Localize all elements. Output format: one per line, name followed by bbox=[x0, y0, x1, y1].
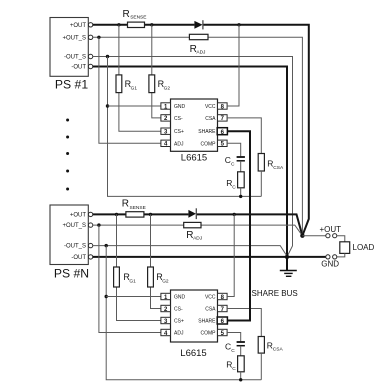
svg-text:CS+: CS+ bbox=[174, 319, 184, 325]
resistor RC PSN bbox=[226, 356, 244, 372]
junction dot ADJ/+OUT_S PSN bbox=[97, 223, 100, 226]
pin +OUT_S PS1 bbox=[88, 35, 92, 39]
svg-text:ADJ: ADJ bbox=[174, 141, 184, 147]
svg-text:PS #1: PS #1 bbox=[55, 77, 88, 91]
op-amp U2 L6615 body bbox=[171, 290, 218, 359]
wire CSA U1 (pin7 to RCSA) bbox=[227, 118, 261, 154]
svg-text:GND: GND bbox=[174, 295, 186, 301]
wire RCSA bottom to rail bbox=[260, 171, 262, 196]
pin +OUT PSN bbox=[88, 212, 92, 216]
ellipsis dots between supplies bbox=[66, 119, 69, 191]
pin -OUT PS1 bbox=[88, 64, 92, 68]
svg-text:SENSE: SENSE bbox=[130, 15, 146, 21]
ground symbol bbox=[280, 257, 297, 276]
svg-text:G2: G2 bbox=[162, 278, 169, 284]
wire Cc to Rc PSN bbox=[240, 346, 242, 356]
wire Cc to Rc bbox=[240, 161, 242, 172]
junction dot Rc/rail PSN bbox=[239, 378, 242, 381]
resistor RCSA PS1 bbox=[258, 154, 284, 172]
pin 4 U1 bbox=[161, 140, 171, 148]
junction dot node VCC/+OUT bbox=[237, 23, 240, 26]
svg-text:VCC: VCC bbox=[205, 104, 216, 110]
pin 1 U2 bbox=[161, 293, 171, 301]
power supply PS #N box bbox=[50, 205, 89, 280]
svg-text:ADJ: ADJ bbox=[174, 331, 184, 337]
wire COMP U1 (pin5 to Cc) bbox=[227, 143, 241, 156]
wire share bus (bold) bbox=[227, 131, 250, 320]
svg-text:COMP: COMP bbox=[201, 141, 217, 147]
svg-text:C: C bbox=[232, 366, 236, 372]
svg-text:GND: GND bbox=[174, 104, 186, 110]
wire -OUT PS1 (bold) bbox=[93, 67, 287, 257]
svg-text:COMP: COMP bbox=[201, 331, 217, 337]
pin 4 U2 bbox=[161, 329, 171, 337]
pin 2 U1 bbox=[161, 115, 171, 123]
junction dot node RG1/+OUT bbox=[117, 23, 120, 26]
wire pin1 GND PSN bbox=[106, 296, 161, 298]
svg-text:SHARE: SHARE bbox=[198, 319, 216, 325]
wire GND PS1 (from -OUT_S down to pin 1 and bottom rail) bbox=[108, 57, 262, 197]
wire RCSA bottom to rail PSN bbox=[260, 353, 262, 380]
pin -OUT PSN bbox=[88, 255, 92, 259]
diode D1 bbox=[194, 20, 203, 29]
junction dot GND vertical/-OUT_S PSN bbox=[105, 244, 108, 247]
resistor RG1 PS1 bbox=[116, 25, 161, 131]
wire ADJ PSN bbox=[99, 225, 161, 332]
capacitor CC PS1 bbox=[225, 155, 245, 167]
svg-text:G2: G2 bbox=[164, 85, 171, 91]
resistor RC PS1 bbox=[226, 172, 244, 191]
pin 7 U2 bbox=[218, 305, 228, 313]
wire -OUT_S PSN bbox=[93, 246, 287, 257]
svg-text:+OUT: +OUT bbox=[70, 213, 87, 219]
wire +OUT_S PSN bbox=[93, 225, 303, 236]
svg-text:CS-: CS- bbox=[174, 116, 183, 122]
pin -OUT_S PS1 bbox=[88, 54, 92, 58]
pin +OUT PS1 bbox=[88, 23, 92, 27]
resistor RADJ PSN bbox=[184, 222, 203, 241]
svg-text:G1: G1 bbox=[131, 85, 138, 91]
junction dot GND vertical/-OUT_S bbox=[106, 55, 109, 58]
svg-text:ADJ: ADJ bbox=[193, 236, 203, 242]
wire COMP U2 (pin5 to Cc) bbox=[227, 333, 241, 342]
pin 3 U1 bbox=[161, 128, 171, 136]
wire load bottom to GND terminal bbox=[337, 253, 345, 257]
svg-text:GND: GND bbox=[321, 259, 339, 268]
svg-text:CSA: CSA bbox=[273, 165, 284, 171]
svg-text:-OUT: -OUT bbox=[71, 255, 86, 261]
power supply PS #1 box bbox=[50, 18, 88, 92]
wire GND PSN (down to pin1 and rail) bbox=[106, 246, 261, 380]
pin 8 U2 bbox=[218, 293, 228, 301]
svg-text:+OUT_S: +OUT_S bbox=[62, 35, 86, 41]
svg-text:R: R bbox=[122, 199, 129, 210]
svg-text:ADJ: ADJ bbox=[196, 50, 206, 56]
svg-text:CS-: CS- bbox=[174, 307, 183, 313]
wire -OUT_S PS1 bbox=[93, 57, 293, 257]
pin 6 U1 (share, bold) bbox=[217, 128, 227, 136]
resistor RG2 PS1 bbox=[149, 25, 170, 118]
wire +OUT node to terminal bbox=[302, 235, 325, 237]
wire +OUT terminal to load bbox=[337, 236, 345, 242]
resistor RG2 PSN bbox=[148, 214, 169, 308]
svg-text:SHARE BUS: SHARE BUS bbox=[252, 289, 298, 298]
wire -OUT PSN (bold, runs to GND terminal) bbox=[93, 256, 326, 258]
diode D2 bbox=[188, 208, 196, 219]
terminal circles +OUT bbox=[326, 234, 330, 238]
svg-text:PS #N: PS #N bbox=[54, 266, 89, 280]
pin 5 U2 bbox=[218, 329, 228, 337]
svg-text:-OUT_S: -OUT_S bbox=[64, 244, 86, 250]
svg-text:CS+: CS+ bbox=[174, 129, 184, 135]
wire CSA U2 (pin7 to RCSA) bbox=[227, 309, 261, 337]
resistor RADJ PS1 bbox=[189, 34, 208, 55]
wire Rc bottom to rail bbox=[240, 188, 242, 197]
pin 7 U1 bbox=[218, 115, 228, 123]
pin 8 U1 bbox=[218, 103, 228, 111]
svg-text:-OUT: -OUT bbox=[71, 65, 86, 71]
wire pin1 GND PS1 bbox=[108, 105, 161, 107]
node GND junction bbox=[285, 255, 289, 259]
wire +OUT PSN (bold) bbox=[93, 214, 303, 235]
pin 6 U2 (share, bold) bbox=[217, 317, 227, 325]
svg-text:CSA: CSA bbox=[205, 116, 216, 122]
svg-text:SHARE: SHARE bbox=[198, 129, 216, 135]
pin 5 U1 bbox=[218, 140, 228, 148]
wire VCC U1 (pin8 to +OUT) bbox=[227, 25, 239, 106]
svg-text:+OUT: +OUT bbox=[320, 225, 342, 234]
svg-text:L6615: L6615 bbox=[181, 152, 207, 163]
svg-text:G1: G1 bbox=[129, 278, 136, 284]
svg-text:+OUT_S: +OUT_S bbox=[62, 223, 86, 229]
svg-text:LOAD: LOAD bbox=[353, 243, 375, 252]
svg-text:C: C bbox=[231, 348, 235, 354]
svg-text:CSA: CSA bbox=[205, 307, 216, 313]
pin 2 U2 bbox=[161, 305, 171, 313]
op-amp U1 L6615 body bbox=[171, 99, 218, 163]
capacitor CC PSN bbox=[225, 342, 245, 354]
load box bbox=[340, 242, 350, 254]
terminal circles GND bbox=[333, 255, 337, 259]
svg-text:L6615: L6615 bbox=[180, 348, 206, 359]
svg-text:SENSE: SENSE bbox=[130, 205, 146, 211]
resistor RG1 PSN bbox=[114, 214, 161, 320]
wire +OUT_S PS1 bbox=[93, 37, 303, 235]
pin 3 U2 bbox=[161, 317, 171, 325]
junction dot Rc/rail bbox=[239, 195, 242, 198]
resistor RSENSE PS1 bbox=[123, 9, 147, 28]
wire +OUT PS1 (bold power path) bbox=[93, 25, 309, 236]
pin +OUT_S PSN bbox=[88, 223, 92, 227]
wire ADJ PS1 (from +OUT_S down to pin 4) bbox=[99, 37, 161, 143]
resistor RCSA PSN bbox=[258, 337, 283, 354]
svg-text:C: C bbox=[232, 184, 236, 190]
pin -OUT_S PSN bbox=[88, 243, 92, 247]
svg-text:CSA: CSA bbox=[273, 347, 284, 353]
wire Rc bottom to rail PSN bbox=[240, 372, 242, 380]
junction dot pin1 junction PSN bbox=[105, 295, 108, 298]
junction dot VCC/+OUT PSN bbox=[233, 213, 236, 216]
junction dot RG2/+OUT PSN bbox=[149, 213, 152, 216]
node +OUT junction bbox=[300, 234, 304, 238]
svg-text:+OUT: +OUT bbox=[70, 23, 87, 29]
wire VCC U2 (pin8 to +OUT) bbox=[227, 214, 234, 296]
resistor RSENSE PSN bbox=[122, 199, 146, 218]
junction dot node RG2/+OUT bbox=[150, 23, 153, 26]
svg-text:-OUT_S: -OUT_S bbox=[64, 55, 86, 61]
junction dot RG1/+OUT PSN bbox=[115, 213, 118, 216]
svg-text:VCC: VCC bbox=[205, 295, 216, 301]
pin 1 U1 bbox=[161, 103, 171, 111]
svg-text:C: C bbox=[231, 161, 235, 167]
junction dot ADJ/+OUT_S bbox=[97, 36, 100, 39]
junction dot pin1 junction bbox=[106, 104, 109, 107]
svg-text:R: R bbox=[123, 9, 130, 20]
